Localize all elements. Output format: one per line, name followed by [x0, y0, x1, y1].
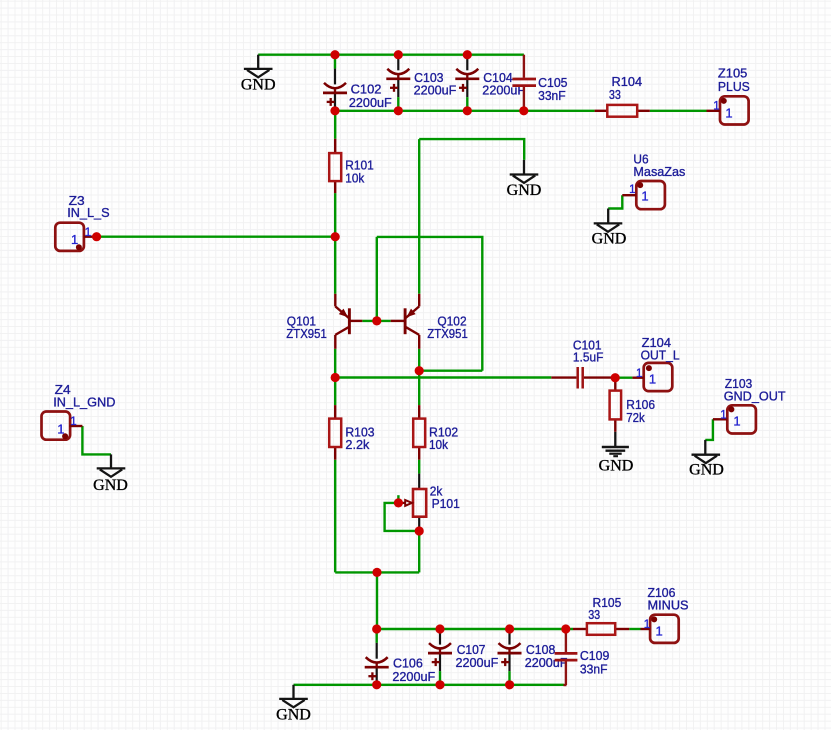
- wire base horizontal: [362, 320, 390, 322]
- svg-text:33: 33: [609, 87, 621, 102]
- wire Q102 emitter to GND: [419, 139, 524, 160]
- connector Z105 labels: [713, 66, 750, 121]
- resistor R106 labels: [626, 397, 655, 425]
- connector Z105: [707, 96, 749, 124]
- potentiometer P101: [401, 474, 426, 531]
- svg-text:GND: GND: [507, 182, 542, 199]
- svg-text:10k: 10k: [345, 170, 364, 185]
- wire Q101 collector down: [334, 349, 336, 405]
- svg-text:1: 1: [71, 232, 78, 247]
- capacitor C108: [498, 629, 522, 685]
- svg-text:1: 1: [720, 409, 726, 421]
- wire U6 to GND stair: [608, 195, 622, 208]
- connector Z104 labels: [636, 335, 680, 387]
- wire mid vertical to MINUS rail: [376, 572, 378, 629]
- svg-text:33: 33: [588, 607, 600, 622]
- svg-text:ZTX951: ZTX951: [286, 326, 327, 341]
- transistor Q101: [335, 294, 362, 349]
- connector Z4: [42, 412, 83, 440]
- resistor R104: [595, 105, 650, 117]
- connector Z4 labels: [53, 382, 115, 436]
- wire Z3 to node: [97, 235, 336, 237]
- wire MINUS rail: [377, 628, 573, 630]
- transistor Q102: [391, 294, 420, 349]
- svg-text:GND: GND: [241, 77, 276, 94]
- svg-text:1: 1: [70, 416, 76, 428]
- ground earth R106: [599, 432, 634, 475]
- svg-text:1: 1: [57, 421, 64, 436]
- svg-text:GND_OUT: GND_OUT: [724, 388, 786, 403]
- svg-text:1: 1: [713, 100, 719, 112]
- capacitor C105: [512, 55, 536, 111]
- svg-text:GND: GND: [276, 706, 311, 723]
- connector Z106 labels: [644, 585, 689, 639]
- svg-text:P101: P101: [432, 496, 460, 511]
- wire base feedback top: [377, 237, 483, 371]
- capacitor C109 labels: [580, 648, 609, 676]
- wire base vertical: [376, 237, 378, 321]
- svg-text:GND: GND: [592, 231, 627, 248]
- svg-text:2200uF: 2200uF: [414, 82, 457, 97]
- connector Z104: [632, 363, 672, 391]
- svg-text:PLUS: PLUS: [718, 79, 750, 94]
- svg-text:1: 1: [641, 189, 648, 204]
- wire P101 wiper loop: [385, 503, 420, 531]
- wire bottom horizontal: [335, 571, 419, 573]
- connector Z106: [641, 615, 679, 643]
- svg-text:1: 1: [644, 619, 650, 631]
- wire PLUS rail: [335, 110, 595, 112]
- ground bottom: [276, 685, 311, 724]
- capacitor C107 labels: [456, 642, 499, 670]
- capacitor C104: [455, 55, 479, 111]
- wire R102 to P101: [418, 460, 420, 474]
- svg-text:1: 1: [629, 184, 635, 196]
- capacitor C103: [386, 55, 410, 111]
- svg-text:MINUS: MINUS: [648, 598, 689, 613]
- connector Z3 labels: [67, 193, 110, 247]
- wire Q102 collector down: [418, 349, 420, 405]
- svg-text:IN_L_GND: IN_L_GND: [53, 394, 115, 409]
- svg-text:GND: GND: [599, 458, 634, 475]
- wire P101 bottom down: [418, 531, 420, 572]
- capacitor C106 labels: [392, 656, 435, 684]
- connector U6: [622, 181, 665, 209]
- capacitor C103 labels: [414, 70, 457, 97]
- svg-text:1: 1: [656, 624, 663, 639]
- capacitor C104 labels: [482, 70, 525, 97]
- svg-text:1: 1: [636, 368, 642, 380]
- svg-text:1: 1: [733, 413, 740, 428]
- ground Z103: [689, 440, 724, 479]
- connector Z3: [55, 223, 96, 251]
- svg-text:2200uF: 2200uF: [392, 669, 435, 684]
- svg-text:1: 1: [85, 227, 91, 239]
- svg-text:OUT_L: OUT_L: [641, 347, 680, 362]
- capacitor C106: [365, 629, 389, 685]
- resistor R101: [329, 139, 341, 193]
- svg-text:72k: 72k: [626, 410, 645, 425]
- svg-text:GND: GND: [93, 477, 128, 494]
- wire C101 to Z104: [611, 377, 632, 379]
- svg-text:33nF: 33nF: [538, 88, 566, 103]
- svg-text:2.2k: 2.2k: [345, 437, 369, 452]
- wire R104 to Z105: [650, 110, 707, 112]
- ground Z4: [93, 454, 128, 494]
- resistor R101 labels: [345, 158, 374, 186]
- capacitor C109: [555, 629, 578, 685]
- wire R105 to Z106: [629, 628, 640, 630]
- resistor R106: [610, 378, 622, 432]
- wire bottom GND rail: [294, 684, 564, 686]
- transistor Q102 labels: [427, 314, 468, 341]
- svg-text:MasaZas: MasaZas: [633, 164, 685, 179]
- wire Q102 emitter vertical: [418, 139, 420, 294]
- svg-text:2200uF: 2200uF: [525, 655, 568, 670]
- capacitor C105 labels: [538, 75, 567, 103]
- wire node to Q101 emitter: [334, 237, 336, 294]
- wire out node horizontal: [335, 376, 551, 378]
- wire R103 bottom: [334, 460, 336, 573]
- svg-text:10k: 10k: [429, 437, 448, 452]
- resistor R104 labels: [609, 74, 642, 102]
- capacitor C108 labels: [525, 642, 568, 670]
- connector Z103: [713, 405, 756, 433]
- wire R101 bottom to IN_L_S node: [334, 193, 336, 237]
- svg-text:33nF: 33nF: [580, 661, 608, 676]
- svg-text:1: 1: [725, 106, 732, 121]
- resistor R105 labels: [588, 595, 621, 622]
- resistor R102: [413, 405, 425, 460]
- potentiometer P101 labels: [430, 484, 460, 512]
- connector U6 labels: [629, 151, 686, 203]
- wire R101 top stub: [334, 111, 336, 139]
- capacitor C101: [551, 367, 611, 389]
- svg-text:ZTX951: ZTX951: [427, 326, 468, 341]
- ground mid (Q102 emitter): [507, 160, 542, 199]
- wire feedback to Q102 collector: [419, 370, 482, 372]
- wire Z4 to GND stair: [82, 426, 111, 454]
- transistor Q101 labels: [286, 314, 327, 341]
- wire Z103 to GND stair: [705, 419, 713, 440]
- capacitor C102: [323, 55, 347, 111]
- connector Z103 labels: [720, 376, 785, 429]
- svg-text:GND: GND: [689, 462, 724, 479]
- capacitor C101 labels: [573, 338, 604, 365]
- capacitor C107: [428, 629, 452, 685]
- ground U6: [592, 209, 627, 248]
- svg-text:IN_L_S: IN_L_S: [67, 205, 110, 220]
- resistor R103 labels: [345, 425, 374, 453]
- ground top-left: [241, 55, 276, 94]
- resistor R102 labels: [429, 425, 458, 453]
- wire top GND rail: [258, 54, 524, 56]
- svg-text:1: 1: [649, 372, 656, 387]
- resistor R103: [329, 405, 341, 460]
- svg-text:1.5uF: 1.5uF: [573, 350, 604, 365]
- resistor R105: [573, 623, 629, 635]
- svg-text:2200uF: 2200uF: [456, 655, 499, 670]
- capacitor C102 labels: [349, 82, 392, 110]
- svg-text:2200uF: 2200uF: [349, 95, 392, 110]
- wire P101 wiper stub: [397, 495, 399, 503]
